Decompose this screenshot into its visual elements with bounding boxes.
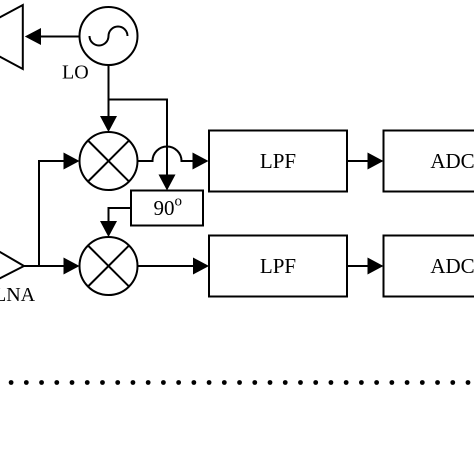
label LNA — [0, 284, 36, 306]
mixer M2 — [80, 237, 138, 295]
wire: RF input up to mixer M1 — [39, 161, 64, 266]
arrowhead into mixer M1 top — [100, 116, 117, 132]
wire: LPF2 to ADC2 — [347, 265, 368, 267]
oscillator LO — [80, 7, 138, 65]
svg-text:LPF: LPF — [260, 149, 296, 173]
label LO — [62, 62, 89, 84]
svg-text:ADC: ADC — [430, 149, 474, 173]
wire: LO down to mixer M1 — [108, 65, 110, 117]
wire: 90 box to mixer M2 — [109, 208, 132, 221]
arrowhead into mixer M2 top — [100, 221, 117, 237]
LPF1 box — [209, 131, 347, 192]
arrowhead into mixer M2 left — [64, 258, 80, 275]
wire: LPF1 to ADC1 — [347, 160, 368, 162]
sine symbol inside LO — [90, 27, 128, 46]
mixer M1 — [80, 132, 138, 190]
arrowhead into ADC2 — [368, 258, 384, 275]
LPF2 box — [209, 236, 347, 297]
arrowhead into LPF2 — [193, 258, 209, 275]
dotted separator line — [9, 380, 471, 385]
arrowhead into LPF1 — [193, 153, 209, 170]
wire: branch right then down to 90 box — [109, 100, 168, 176]
wire: LO to antenna — [39, 36, 80, 38]
wire: mixer M2 output — [138, 265, 194, 267]
svg-text:LPF: LPF — [260, 254, 296, 278]
ADC2 box (clipped at right edge) — [384, 236, 474, 297]
LNA amplifier triangle (clipped at left edge) — [0, 240, 24, 288]
ADC1 box (clipped at right edge) — [384, 131, 474, 192]
wire: LNA to mixer M2 — [24, 265, 64, 267]
wire: mixer M1 output with hop over LO line — [138, 147, 194, 162]
svg-text:LNA: LNA — [0, 284, 36, 306]
90 degree phase shifter box — [131, 191, 203, 226]
svg-text:LO: LO — [62, 62, 89, 84]
arrowhead into 90 box top — [159, 175, 176, 191]
arrowhead into antenna — [25, 28, 41, 45]
arrowhead into mixer M1 left — [64, 153, 80, 170]
svg-text:ADC: ADC — [430, 254, 474, 278]
arrowhead into ADC1 — [368, 153, 384, 170]
antenna triangle (pointing left, clipped at left edge) — [0, 5, 23, 69]
